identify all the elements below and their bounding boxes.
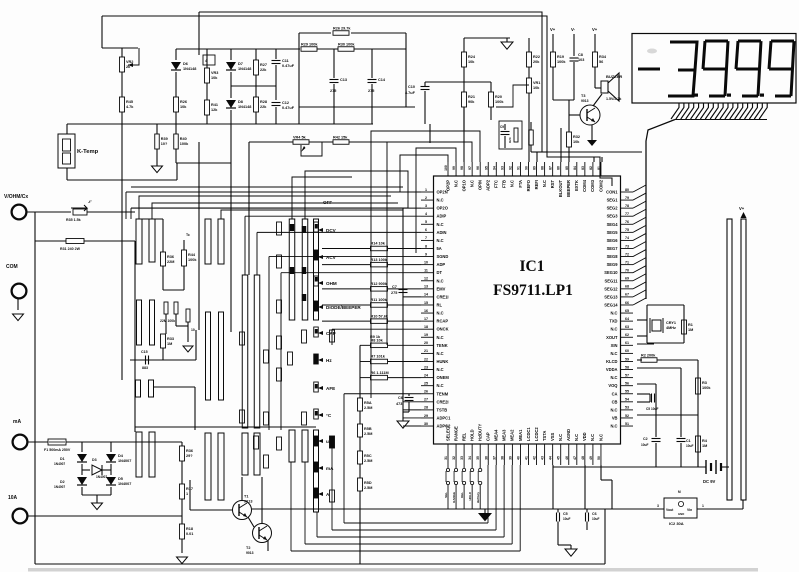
svg-text:22k: 22k — [260, 68, 267, 72]
svg-text:BEEPER: BEEPER — [566, 180, 571, 197]
svg-text:TSTB: TSTB — [437, 407, 448, 412]
svg-text:R35 1.5k: R35 1.5k — [66, 218, 81, 222]
svg-text:14: 14 — [424, 293, 428, 297]
svg-text:84: 84 — [573, 166, 577, 170]
svg-text:N.C: N.C — [542, 180, 547, 187]
svg-text:79: 79 — [625, 196, 629, 200]
svg-text:12: 12 — [424, 277, 428, 281]
svg-text:88: 88 — [541, 166, 545, 170]
svg-text:R2 200k: R2 200k — [641, 353, 656, 357]
svg-text:V/OHM/Cx: V/OHM/Cx — [4, 194, 28, 200]
svg-text:°C: °C — [326, 413, 332, 418]
svg-text:SEG14: SEG14 — [604, 302, 618, 307]
svg-text:SEG6: SEG6 — [607, 238, 619, 243]
svg-text:R5B: R5B — [364, 427, 372, 431]
svg-text:1N4148: 1N4148 — [238, 105, 251, 109]
svg-text:83: 83 — [581, 166, 585, 170]
svg-text:K-Temp: K-Temp — [77, 149, 99, 155]
svg-text:R34: R34 — [599, 55, 607, 59]
svg-text:29: 29 — [424, 414, 428, 418]
svg-text:80: 80 — [625, 188, 629, 192]
svg-text:R45: R45 — [126, 100, 133, 104]
svg-text:V+: V+ — [550, 27, 556, 32]
svg-text:OP2P: OP2P — [445, 180, 450, 191]
svg-text:C6: C6 — [398, 396, 403, 400]
svg-text:LCDC2: LCDC2 — [534, 427, 539, 441]
svg-text:COM2: COM2 — [598, 179, 603, 192]
svg-text:4MHz: 4MHz — [666, 326, 676, 330]
svg-text:VSS: VSS — [550, 433, 555, 441]
svg-text:Vin: Vin — [687, 508, 692, 512]
svg-text:1M: 1M — [702, 444, 707, 448]
svg-text:72: 72 — [625, 252, 629, 256]
svg-text:44: 44 — [549, 456, 553, 460]
svg-text:86: 86 — [557, 166, 561, 170]
svg-text:C2: C2 — [643, 437, 648, 441]
svg-text:R40: R40 — [180, 137, 187, 141]
svg-text:IC1: IC1 — [520, 258, 545, 275]
svg-text:9013: 9013 — [246, 551, 254, 555]
svg-text:N.C: N.C — [469, 180, 474, 187]
svg-text:78: 78 — [625, 204, 629, 208]
svg-text:R5C: R5C — [364, 454, 372, 458]
svg-text:REFO: REFO — [526, 179, 531, 191]
svg-text:CRE1I: CRE1I — [437, 294, 449, 299]
svg-text:R33: R33 — [167, 337, 174, 341]
svg-text:REFI: REFI — [534, 180, 539, 189]
svg-text:R12 900k: R12 900k — [371, 282, 388, 286]
svg-text:AGND: AGND — [566, 429, 571, 441]
svg-text:SEG3: SEG3 — [607, 214, 619, 219]
svg-text:BUZZER: BUZZER — [606, 74, 622, 79]
svg-text:2.5M: 2.5M — [364, 459, 372, 463]
svg-text:R24: R24 — [468, 55, 476, 59]
svg-text:58: 58 — [625, 365, 629, 369]
svg-text:9013: 9013 — [244, 500, 252, 504]
svg-text:D5: D5 — [118, 477, 123, 481]
svg-text:10k: 10k — [573, 140, 580, 144]
svg-text:46: 46 — [565, 456, 569, 460]
svg-text:47: 47 — [573, 456, 577, 460]
svg-text:94: 94 — [492, 166, 496, 170]
svg-text:C13: C13 — [340, 78, 347, 82]
svg-text:36: 36 — [484, 456, 488, 460]
svg-text:61: 61 — [625, 341, 629, 345]
svg-text:HOLD: HOLD — [468, 491, 472, 500]
svg-text:RL: RL — [437, 302, 443, 307]
svg-text:Hz/DUTY: Hz/DUTY — [478, 423, 483, 441]
svg-text:1: 1 — [186, 492, 188, 496]
svg-text:64: 64 — [625, 317, 629, 321]
svg-text:N.C: N.C — [598, 434, 603, 441]
svg-text:41: 41 — [525, 456, 529, 460]
svg-text:R5A: R5A — [364, 401, 372, 405]
svg-text:1M: 1M — [688, 328, 693, 332]
svg-text:SGND: SGND — [437, 254, 449, 259]
svg-text:1N4148: 1N4148 — [183, 67, 196, 71]
svg-text:10k: 10k — [468, 60, 475, 64]
svg-text:ONCK: ONCK — [437, 327, 449, 332]
svg-text:CA: CA — [612, 391, 618, 396]
svg-text:SEG8: SEG8 — [607, 254, 619, 259]
svg-text:N.C: N.C — [437, 278, 444, 283]
svg-text:10k: 10k — [533, 86, 540, 90]
svg-text:GND: GND — [678, 512, 684, 516]
svg-text:N.C: N.C — [558, 434, 563, 441]
svg-text:C1: C1 — [686, 439, 691, 443]
svg-text:D8: D8 — [238, 100, 243, 104]
svg-text:R13 100k: R13 100k — [371, 258, 388, 262]
svg-text:C6: C6 — [592, 512, 597, 516]
svg-text:22: 22 — [424, 357, 428, 361]
svg-text:R36: R36 — [167, 255, 174, 259]
svg-text:90k: 90k — [468, 100, 475, 104]
svg-text:VR3: VR3 — [211, 71, 218, 75]
svg-text:100k: 100k — [188, 258, 197, 262]
svg-text:FS9711.LP1: FS9711.LP1 — [493, 282, 573, 299]
svg-text:34: 34 — [468, 456, 472, 460]
svg-text:87: 87 — [549, 166, 553, 170]
svg-text:75: 75 — [625, 228, 629, 232]
svg-text:R30 100k: R30 100k — [338, 42, 355, 46]
svg-text:52: 52 — [625, 414, 629, 418]
svg-text:R27: R27 — [260, 63, 267, 67]
svg-text:XOUT: XOUT — [606, 335, 618, 340]
svg-text:1N4007: 1N4007 — [54, 485, 65, 489]
svg-text:59: 59 — [625, 357, 629, 361]
svg-text:98: 98 — [460, 166, 464, 170]
svg-text:R9 1k: R9 1k — [370, 335, 381, 339]
svg-text:90: 90 — [525, 166, 529, 170]
svg-text:VR4 5k: VR4 5k — [293, 135, 307, 139]
svg-text:8: 8 — [425, 244, 427, 248]
svg-text:275: 275 — [368, 89, 374, 93]
svg-text:16: 16 — [424, 309, 428, 313]
svg-text:100k: 100k — [495, 100, 504, 104]
svg-text:68: 68 — [625, 285, 629, 289]
svg-text:37: 37 — [492, 456, 496, 460]
svg-text:XIN: XIN — [611, 343, 618, 348]
svg-text:26: 26 — [424, 390, 428, 394]
svg-text:ADIN: ADIN — [437, 230, 447, 235]
svg-text:66: 66 — [625, 301, 629, 305]
svg-text:T2: T2 — [246, 546, 250, 550]
svg-text:AFE: AFE — [326, 386, 335, 391]
svg-text:N.C: N.C — [437, 383, 444, 388]
svg-text:FTB: FTB — [502, 180, 507, 188]
svg-text:22k: 22k — [260, 105, 267, 109]
svg-text:2: 2 — [425, 196, 427, 200]
svg-text:1: 1 — [425, 188, 427, 192]
svg-text:SEG9: SEG9 — [607, 262, 619, 267]
svg-text:93: 93 — [500, 166, 504, 170]
svg-text:51: 51 — [625, 422, 629, 426]
svg-text:CAP: CAP — [486, 432, 491, 441]
svg-text:D1: D1 — [60, 457, 65, 461]
svg-text:RST: RST — [550, 180, 555, 189]
svg-text:R7 101k: R7 101k — [371, 355, 386, 359]
svg-text:R14 10k: R14 10k — [371, 242, 386, 246]
svg-text:883: 883 — [142, 366, 148, 370]
svg-text:43: 43 — [541, 456, 545, 460]
svg-text:4.7k: 4.7k — [126, 105, 134, 109]
svg-text:0.47uF: 0.47uF — [282, 106, 295, 110]
svg-text:1: 1 — [702, 504, 704, 508]
svg-text:R22: R22 — [533, 55, 540, 59]
svg-text:C9: C9 — [500, 125, 504, 129]
svg-text:2.5M: 2.5M — [364, 406, 372, 410]
svg-text:COM: COM — [6, 264, 18, 270]
svg-text:100k: 100k — [180, 142, 189, 146]
svg-text:VDD: VDD — [582, 432, 587, 441]
svg-text:63: 63 — [625, 325, 629, 329]
svg-text:EMV: EMV — [437, 286, 446, 291]
svg-text:R39: R39 — [161, 137, 168, 141]
svg-text:92: 92 — [508, 166, 512, 170]
svg-text:82: 82 — [589, 166, 593, 170]
svg-text:N.C: N.C — [437, 351, 444, 356]
svg-text:N.C: N.C — [437, 222, 444, 227]
svg-text:Hz: Hz — [326, 358, 332, 363]
svg-text:10uF: 10uF — [641, 443, 648, 447]
svg-text:1N4007: 1N4007 — [54, 462, 65, 466]
svg-text:SEG13: SEG13 — [604, 294, 618, 299]
svg-text:21: 21 — [424, 349, 428, 353]
svg-text:40: 40 — [516, 456, 520, 460]
svg-text:R32: R32 — [573, 135, 580, 139]
svg-text:35: 35 — [476, 456, 480, 460]
svg-text:62: 62 — [625, 333, 629, 337]
svg-text:70: 70 — [625, 269, 629, 273]
svg-text:RANGE: RANGE — [452, 492, 456, 503]
svg-text:VB: VB — [612, 415, 618, 420]
svg-text:10k: 10k — [211, 76, 218, 80]
svg-text:85: 85 — [565, 166, 569, 170]
svg-text:M: M — [678, 490, 681, 494]
svg-text:77: 77 — [625, 212, 629, 216]
svg-text:R36: R36 — [186, 449, 193, 453]
svg-text:N.C: N.C — [453, 180, 458, 187]
svg-text:COM4: COM4 — [582, 179, 587, 192]
svg-text:6: 6 — [425, 228, 427, 232]
svg-text:39: 39 — [508, 456, 512, 460]
svg-text:SEG12: SEG12 — [604, 286, 618, 291]
svg-text:10?: 10? — [161, 142, 168, 146]
svg-text:SEG2: SEG2 — [607, 206, 619, 211]
svg-text:R1: R1 — [688, 323, 693, 327]
svg-text:7: 7 — [425, 236, 427, 240]
svg-text:18: 18 — [424, 325, 428, 329]
svg-text:275: 275 — [330, 89, 336, 93]
svg-text:42: 42 — [533, 456, 537, 460]
svg-text:91: 91 — [516, 166, 520, 170]
svg-text:R21: R21 — [468, 95, 475, 99]
svg-text:1N4007: 1N4007 — [96, 475, 107, 479]
svg-text:17: 17 — [424, 317, 428, 321]
svg-text:SEL: SEL — [444, 492, 448, 498]
svg-text:SEG11: SEG11 — [605, 278, 619, 283]
svg-text:50: 50 — [597, 456, 601, 460]
svg-text:MEA4: MEA4 — [494, 429, 499, 441]
svg-text:ONEM: ONEM — [437, 375, 450, 380]
svg-text:54: 54 — [625, 398, 629, 402]
svg-text:SELECT: SELECT — [445, 424, 450, 441]
svg-text:CRY1: CRY1 — [666, 321, 676, 325]
svg-text:1.5V/2.7k: 1.5V/2.7k — [606, 97, 621, 101]
svg-text:10uF: 10uF — [592, 517, 599, 521]
svg-text:48: 48 — [581, 456, 585, 460]
svg-text:DC 9V: DC 9V — [703, 479, 716, 484]
svg-text:ADP2: ADP2 — [486, 179, 491, 191]
svg-text:N.C: N.C — [610, 375, 617, 380]
svg-text:REL: REL — [461, 432, 466, 441]
svg-text:22M: 22M — [167, 260, 174, 264]
svg-text:74: 74 — [625, 236, 629, 240]
svg-text:9: 9 — [425, 252, 427, 256]
svg-text:96: 96 — [476, 166, 480, 170]
svg-text:60: 60 — [625, 349, 629, 353]
svg-text:MEA3: MEA3 — [502, 429, 507, 441]
svg-text:N.C: N.C — [610, 407, 617, 412]
svg-text:71: 71 — [625, 260, 629, 264]
svg-text:ADP: ADP — [437, 262, 446, 267]
svg-text:2.5M: 2.5M — [364, 486, 372, 490]
svg-text:53: 53 — [625, 406, 629, 410]
svg-text:ADPC1: ADPC1 — [437, 415, 452, 420]
svg-text:OFF: OFF — [323, 200, 332, 205]
svg-text:33: 33 — [460, 456, 464, 460]
svg-text:5: 5 — [425, 220, 427, 224]
svg-text:F1 500mA 250V: F1 500mA 250V — [44, 448, 71, 452]
svg-text:R19: R19 — [557, 55, 564, 59]
svg-text:C10: C10 — [408, 85, 415, 89]
svg-text:mA: mA — [326, 466, 334, 471]
svg-text:1N4007: 1N4007 — [118, 459, 131, 463]
svg-text:10k: 10k — [180, 105, 187, 109]
svg-text:VR1: VR1 — [533, 81, 540, 85]
svg-text:R3: R3 — [702, 381, 707, 385]
svg-text:TSTA: TSTA — [542, 431, 547, 441]
svg-text:SEG7: SEG7 — [607, 246, 619, 251]
svg-text:C14: C14 — [378, 78, 386, 82]
svg-text:12k: 12k — [211, 108, 218, 112]
svg-text:D7: D7 — [238, 62, 243, 66]
svg-text:56: 56 — [599, 60, 603, 64]
svg-text:C8: C8 — [578, 53, 583, 57]
svg-text:TXD: TXD — [609, 319, 617, 324]
svg-text:ADIP: ADIP — [437, 214, 447, 219]
svg-text:97: 97 — [468, 166, 472, 170]
svg-text:275: 275 — [391, 291, 397, 295]
svg-text:SEG1: SEG1 — [607, 198, 619, 203]
svg-text:N.C: N.C — [437, 198, 444, 203]
svg-text:CRE2I: CRE2I — [437, 399, 449, 404]
svg-text:65: 65 — [625, 309, 629, 313]
svg-text:SEG10: SEG10 — [604, 270, 618, 275]
svg-text:R26: R26 — [180, 100, 187, 104]
svg-text:T1: T1 — [244, 495, 248, 499]
svg-text:38: 38 — [500, 456, 504, 460]
svg-text:R44: R44 — [188, 253, 196, 257]
svg-text:RCAP: RCAP — [437, 319, 449, 324]
svg-text:67: 67 — [625, 293, 629, 297]
svg-text:69: 69 — [625, 277, 629, 281]
svg-text:OP1O: OP1O — [461, 179, 466, 191]
svg-text:10: 10 — [424, 260, 428, 264]
svg-text:31: 31 — [444, 456, 448, 460]
svg-text:FTA: FTA — [518, 180, 523, 188]
svg-text:N.C: N.C — [610, 327, 617, 332]
svg-text:C12: C12 — [282, 101, 289, 105]
svg-text:KLCD: KLCD — [606, 359, 617, 364]
svg-text:C5: C5 — [563, 512, 568, 516]
svg-text:R8 10k: R8 10k — [371, 339, 384, 343]
svg-text:ACV: ACV — [326, 255, 337, 260]
svg-text:D6: D6 — [183, 62, 188, 66]
svg-text:49: 49 — [589, 456, 593, 460]
svg-text:N.C: N.C — [437, 335, 444, 340]
svg-text:D2: D2 — [60, 480, 65, 484]
svg-text:45: 45 — [557, 456, 561, 460]
svg-text:N.C: N.C — [437, 238, 444, 243]
svg-text:N.C: N.C — [574, 434, 579, 441]
svg-text:SEG5: SEG5 — [607, 230, 619, 235]
svg-text:R29 100k: R29 100k — [301, 42, 318, 46]
svg-text:100: 100 — [444, 165, 448, 171]
svg-text:N.C: N.C — [590, 434, 595, 441]
svg-text:57: 57 — [625, 373, 629, 377]
svg-text:55: 55 — [625, 390, 629, 394]
svg-text:1N4007: 1N4007 — [118, 482, 131, 486]
svg-text:2.5M: 2.5M — [364, 432, 372, 436]
svg-text:76: 76 — [625, 220, 629, 224]
svg-text:0.01: 0.01 — [186, 532, 193, 536]
svg-text:89: 89 — [533, 166, 537, 170]
svg-text:V+: V+ — [592, 27, 598, 32]
svg-text:D3: D3 — [92, 458, 97, 462]
svg-text:1N4148: 1N4148 — [238, 67, 251, 71]
svg-text:73: 73 — [625, 244, 629, 248]
svg-text:R28: R28 — [260, 100, 267, 104]
svg-text:CB: CB — [612, 399, 618, 404]
svg-text:CON1: CON1 — [606, 190, 618, 195]
svg-text:VDDA: VDDA — [606, 367, 618, 372]
svg-text:13: 13 — [424, 285, 428, 289]
svg-text:R11 100k: R11 100k — [371, 298, 388, 302]
svg-text:-t°: -t° — [88, 200, 92, 204]
svg-text:VOQ: VOQ — [608, 383, 618, 388]
svg-text:MEA1: MEA1 — [518, 429, 523, 441]
svg-text:Hz/Duty: Hz/Duty — [476, 492, 480, 503]
svg-text:T3: T3 — [581, 94, 585, 98]
svg-text:10A: 10A — [8, 495, 18, 501]
svg-text:R26 29.7k: R26 29.7k — [333, 26, 351, 30]
svg-text:DIODE/BEEPER: DIODE/BEEPER — [326, 305, 361, 310]
svg-text:OHM: OHM — [326, 281, 337, 286]
svg-text:N.C: N.C — [610, 424, 617, 429]
svg-text:3: 3 — [425, 204, 427, 208]
svg-text:C5 10uF: C5 10uF — [646, 407, 658, 411]
svg-text:BLKOUT: BLKOUT — [558, 180, 563, 198]
svg-text:27: 27 — [424, 398, 428, 402]
svg-text:C7: C7 — [392, 285, 397, 289]
svg-text:5A: 5A — [437, 246, 442, 251]
svg-text:EXTK: EXTK — [574, 180, 579, 191]
svg-text:OPIN: OPIN — [478, 180, 483, 190]
svg-text:100k: 100k — [702, 386, 711, 390]
svg-text:mA: mA — [13, 419, 21, 425]
svg-text:MEA2: MEA2 — [510, 429, 515, 441]
